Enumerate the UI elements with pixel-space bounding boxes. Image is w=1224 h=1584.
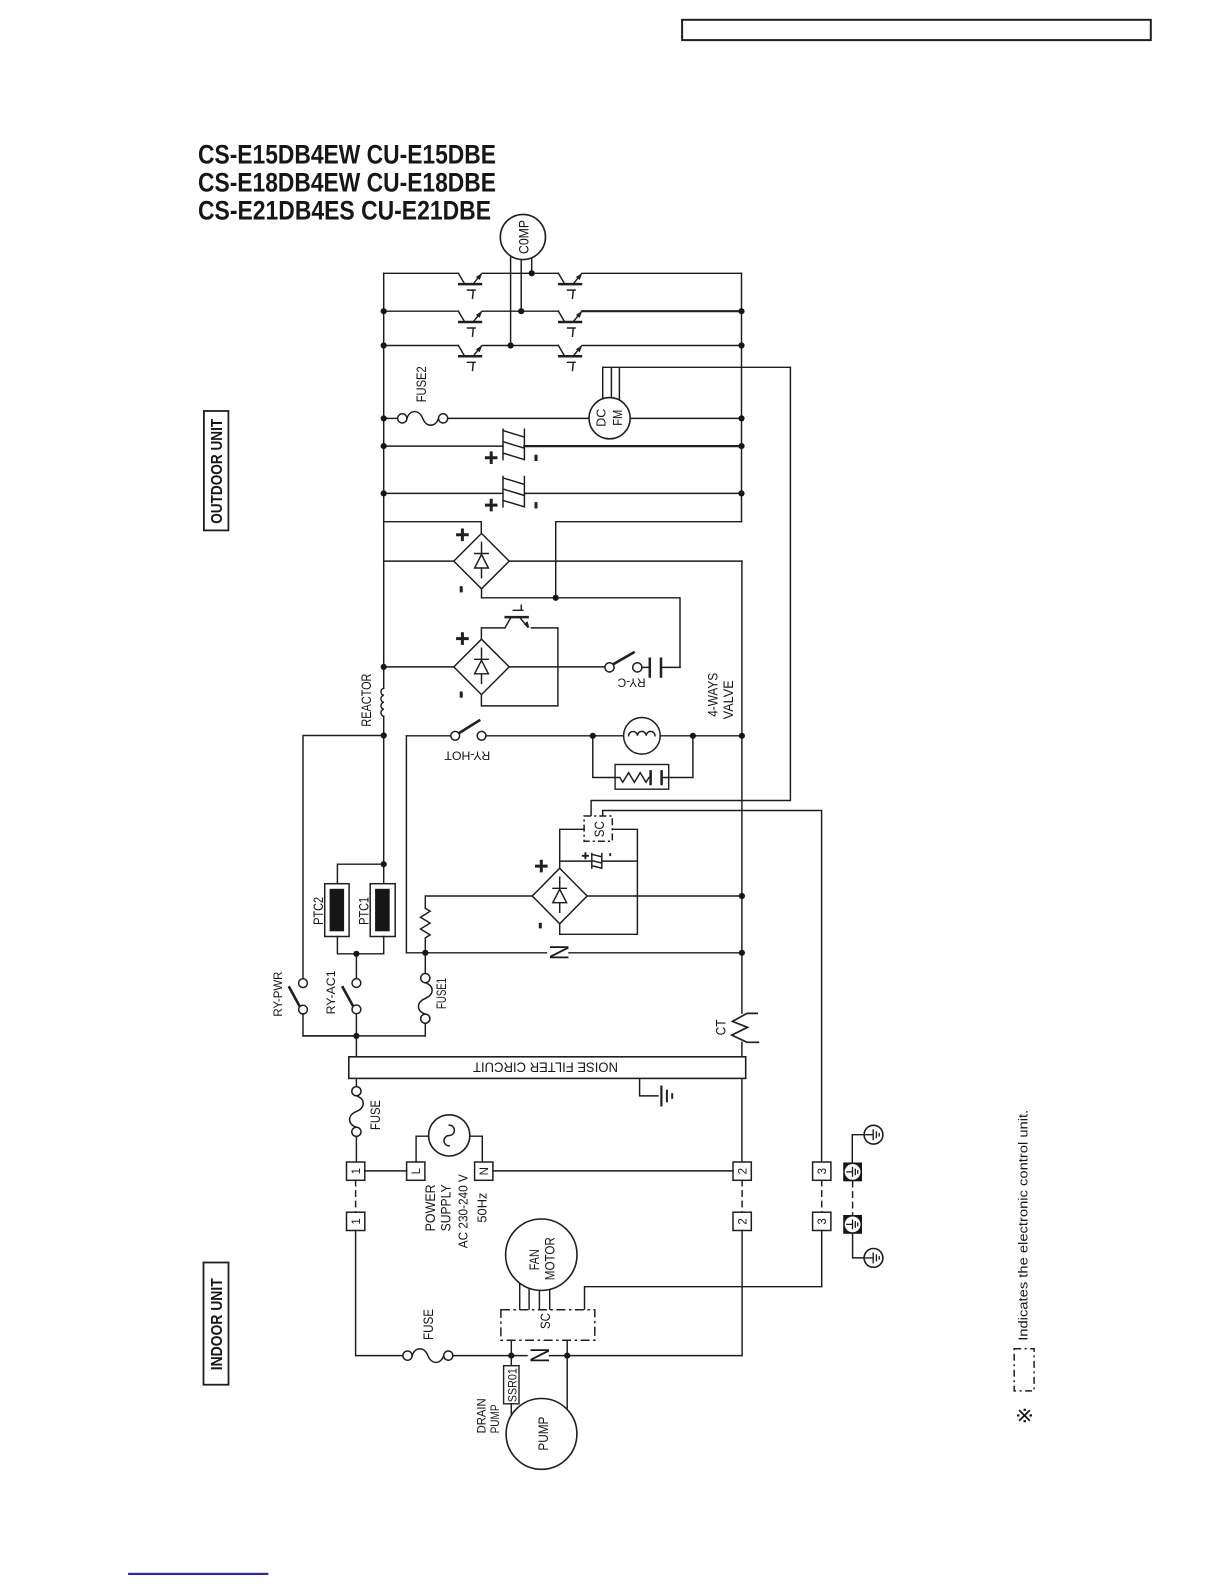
svg-text:1: 1 xyxy=(351,1218,363,1224)
earth terminal block outdoor xyxy=(843,1163,862,1182)
dashed link terminal 3 xyxy=(821,1180,823,1212)
current transformer CT xyxy=(713,1013,760,1042)
svg-text:REACTOR: REACTOR xyxy=(358,674,374,727)
connector CN2 plus line xyxy=(384,477,742,507)
node valve right xyxy=(690,733,696,739)
node cn2 left xyxy=(381,490,387,496)
svg-text:SC: SC xyxy=(537,1313,553,1329)
IGBT enclosure around D2 xyxy=(481,628,558,706)
svg-text:VALVE: VALVE xyxy=(720,680,736,719)
SC leads to line xyxy=(511,1340,567,1355)
wire bottom ac line xyxy=(303,1035,425,1037)
svg-text:FUSE: FUSE xyxy=(420,1309,436,1340)
relay contact RY-PWR xyxy=(271,971,356,1036)
polarity marks cn1 xyxy=(485,451,536,464)
svg-text:RY-HOT: RY-HOT xyxy=(444,749,491,763)
svg-text:CT: CT xyxy=(713,1019,729,1035)
earth terminal circle bottom xyxy=(853,1234,883,1268)
svg-text:1: 1 xyxy=(351,1168,363,1174)
terminal N xyxy=(475,1162,493,1180)
node valve rail xyxy=(739,733,745,739)
label drain pump xyxy=(474,1398,502,1433)
transistor Q5 xyxy=(458,345,482,370)
node PTC join xyxy=(353,951,359,957)
legend note: Indicates the electronic control unit. xyxy=(1016,1110,1031,1341)
legend dashed box symbol xyxy=(1014,1349,1034,1391)
dashed link earth xyxy=(852,1181,854,1215)
svg-text:3: 3 xyxy=(817,1168,829,1174)
transistor Q3 xyxy=(458,311,482,336)
svg-text:FUSE1: FUSE1 xyxy=(433,978,449,1009)
wire bridge D2 left xyxy=(384,666,454,668)
polarity marks cn-sc xyxy=(582,852,610,859)
wire indoor live feed xyxy=(356,1231,403,1356)
node valve left xyxy=(590,733,596,739)
svg-text:FM: FM xyxy=(611,410,625,426)
dashed link terminal 1 xyxy=(355,1180,357,1212)
node bus3-comp xyxy=(508,342,514,348)
svg-text:4-WAYS: 4-WAYS xyxy=(704,673,720,717)
node AC junction bottom xyxy=(353,1033,359,1039)
capacitor RY-C series xyxy=(642,658,680,678)
svg-text:FUSE2: FUSE2 xyxy=(413,366,429,402)
polarity marks cn2 xyxy=(485,499,536,512)
node cn1 right xyxy=(738,443,744,449)
polarity marks bridge D1 xyxy=(456,529,469,593)
connector CN1 plus line xyxy=(384,429,742,459)
svg-text:2: 2 xyxy=(737,1168,749,1174)
svg-text:PUMP: PUMP xyxy=(488,1404,502,1433)
wire earth top link xyxy=(852,1135,864,1163)
connector CN-SC on line xyxy=(560,854,638,869)
inverter DC bus right rail xyxy=(741,273,743,521)
transistor Q6 xyxy=(558,345,582,370)
earth terminal circle top xyxy=(864,1125,883,1144)
wire terminal1 to L xyxy=(365,1170,407,1172)
wire PTC bottoms join xyxy=(337,937,383,979)
dashed link terminal 2 xyxy=(741,1180,743,1212)
transistor IGBT chopper xyxy=(505,605,530,628)
title text model numbers xyxy=(198,140,496,226)
bridge D3 enclosure xyxy=(560,829,638,934)
wire SC second lead to terminal 3 (vertical x821) xyxy=(603,811,822,1162)
wire bridge D2 right xyxy=(509,666,605,668)
node neutral right rail xyxy=(739,950,745,956)
svg-text:N: N xyxy=(525,1348,555,1364)
inverter box bottom edge xyxy=(384,522,742,598)
svg-text:SSR01: SSR01 xyxy=(508,1368,520,1402)
svg-text:POWER: POWER xyxy=(422,1184,438,1231)
thermistor PTC1 xyxy=(356,864,396,936)
terminal 1 indoor xyxy=(347,1212,365,1230)
svg-text:NOISE FILTER CIRCUIT: NOISE FILTER CIRCUIT xyxy=(473,1059,618,1075)
letter N marker outdoor xyxy=(545,945,575,961)
node left bus3 xyxy=(381,342,387,348)
earth ground from noise filter xyxy=(640,1078,673,1106)
fuse FUSE1 xyxy=(418,953,449,1036)
fan motor indoor xyxy=(506,1219,577,1290)
node right bus3 xyxy=(738,342,744,348)
rectifier bridge D1 xyxy=(454,533,509,588)
wire PTC2 branch top xyxy=(337,864,383,884)
INDOOR UNIT label box xyxy=(204,1263,229,1385)
svg-text:N: N xyxy=(479,1167,491,1175)
legend reference mark xyxy=(1014,1407,1037,1425)
wire bridge D1 negative xyxy=(482,589,681,668)
svg-text:PTC1: PTC1 xyxy=(356,897,372,925)
empty header box top right xyxy=(682,20,1151,40)
SC block outdoor xyxy=(584,816,612,841)
terminal 3 outdoor xyxy=(813,1162,831,1180)
power supply source xyxy=(416,1115,482,1162)
earth terminal block indoor xyxy=(843,1215,862,1234)
svg-text:Indicates the electronic contr: Indicates the electronic control unit. xyxy=(1016,1110,1031,1341)
wire bridge D1 right to main rail xyxy=(509,560,742,562)
wire pump right lead xyxy=(566,1356,568,1413)
relay contact RY-C xyxy=(605,652,646,690)
fan motor feed wires xyxy=(603,367,791,400)
thermistor PTC2 xyxy=(310,884,349,937)
letter N marker indoor xyxy=(525,1348,555,1364)
svg-text:2: 2 xyxy=(737,1218,749,1224)
svg-text:CS-E15DB4EW CU-E15DBE: CS-E15DB4EW CU-E15DBE xyxy=(198,140,496,170)
terminal 1 outdoor xyxy=(347,1162,365,1180)
footer blue rule xyxy=(128,1573,268,1575)
svg-text:CS-E18DB4EW CU-E18DBE: CS-E18DB4EW CU-E18DBE xyxy=(198,168,496,198)
node left bus2 xyxy=(381,308,387,314)
terminal 3 indoor xyxy=(813,1212,831,1230)
fuse FUSE2 xyxy=(384,366,742,425)
node pump lead xyxy=(564,1353,570,1359)
node PTC branch xyxy=(381,861,387,867)
node D3 right rail xyxy=(739,893,745,899)
SC block indoor xyxy=(501,1310,595,1340)
terminal 2 outdoor xyxy=(733,1162,751,1180)
polarity marks bridge D3 xyxy=(535,860,548,929)
svg-text:50Hz: 50Hz xyxy=(476,1193,490,1223)
phase bus line 3 (bottom) xyxy=(384,345,742,347)
svg-text:PTC2: PTC2 xyxy=(310,897,326,925)
node bus2-comp xyxy=(518,308,524,314)
relay contact RY-AC1 xyxy=(324,970,361,1057)
label power supply xyxy=(422,1174,490,1249)
rectifier bridge D3 xyxy=(532,868,587,924)
noise filter circuit box xyxy=(349,1057,746,1079)
phase bus line 2 (middle) xyxy=(384,310,742,312)
terminal 2 indoor xyxy=(733,1212,751,1230)
transistor Q2 xyxy=(558,273,582,298)
svg-text:AC 230-240 V: AC 230-240 V xyxy=(457,1174,471,1249)
svg-text:INDOOR UNIT: INDOOR UNIT xyxy=(209,1278,226,1370)
wire indoor neutral line xyxy=(453,1231,742,1356)
node fuse2 left xyxy=(381,415,387,421)
node neutral-resistor junction xyxy=(422,950,428,956)
node D2 left xyxy=(381,664,387,670)
svg-text:DRAIN: DRAIN xyxy=(474,1398,488,1433)
svg-text:3: 3 xyxy=(817,1218,829,1224)
relay contact RY-HOT xyxy=(406,720,623,953)
node bus1-comp xyxy=(529,270,535,276)
inverter DC bus left rail xyxy=(383,273,385,688)
svg-text:※: ※ xyxy=(1014,1407,1037,1425)
polarity marks bridge D2 xyxy=(456,632,469,697)
svg-text:SUPPLY: SUPPLY xyxy=(437,1184,453,1232)
wire bridge D3 left with resistor xyxy=(420,896,532,953)
svg-text:DC: DC xyxy=(595,409,609,427)
svg-text:OUTDOOR UNIT: OUTDOOR UNIT xyxy=(209,419,226,524)
transistor Q4 xyxy=(558,311,582,336)
compressor wires xyxy=(511,254,532,346)
wire neutral line outdoor xyxy=(406,952,742,954)
node fuse2 right xyxy=(738,415,744,421)
svg-text:SC: SC xyxy=(592,821,607,837)
wire bridge D3 right xyxy=(587,895,742,897)
node right bus2 xyxy=(738,308,744,314)
rectifier bridge D2 xyxy=(454,639,509,694)
svg-text:L: L xyxy=(411,1167,423,1174)
solid state relay SSR01 xyxy=(504,1356,520,1415)
label 4-WAYS VALVE xyxy=(704,673,736,720)
4-ways valve coil xyxy=(624,718,742,755)
fuse FUSE indoor xyxy=(403,1309,453,1362)
wire fan-motor bus to SC (vertical x790) xyxy=(591,367,790,816)
transistor Q1 xyxy=(458,273,482,298)
wire RY-PWR branch xyxy=(303,736,384,979)
svg-text:FUSE: FUSE xyxy=(367,1100,383,1130)
snubber RC box xyxy=(593,736,693,789)
node cn2 right xyxy=(738,490,744,496)
wire N to terminal2 xyxy=(493,1170,733,1172)
fan motor DC FM xyxy=(589,398,630,439)
svg-text:RY-AC1: RY-AC1 xyxy=(324,970,338,1014)
main right rail outdoor xyxy=(741,561,743,1162)
svg-text:C0MP: C0MP xyxy=(516,220,532,254)
svg-text:MOTOR: MOTOR xyxy=(541,1237,557,1280)
drain pump motor xyxy=(506,1399,577,1470)
wire SC to terminal 3 indoor xyxy=(585,1231,822,1310)
svg-text:N: N xyxy=(545,945,575,961)
wire bridge D1 left xyxy=(384,560,454,562)
compressor motor COMP xyxy=(500,214,545,259)
fan motor leads indoor xyxy=(520,1282,550,1310)
phase bus line 1 (top) xyxy=(384,272,742,274)
svg-text:PUMP: PUMP xyxy=(535,1417,551,1451)
node reactor to RY-PWR branch xyxy=(381,732,387,738)
terminal L xyxy=(407,1162,425,1180)
node cn1 left xyxy=(381,443,387,449)
reactor coil xyxy=(358,674,384,865)
node D1 negative junction xyxy=(553,595,559,601)
OUTDOOR UNIT label box xyxy=(204,411,229,530)
svg-text:CS-E21DB4ES CU-E21DBE: CS-E21DB4ES CU-E21DBE xyxy=(198,196,491,226)
node SSR lead xyxy=(508,1353,514,1359)
svg-text:RY-PWR: RY-PWR xyxy=(271,971,285,1016)
fuse FUSE outdoor feed xyxy=(350,1078,383,1161)
svg-text:RY-C: RY-C xyxy=(617,675,645,689)
svg-text:FAN: FAN xyxy=(526,1249,542,1270)
